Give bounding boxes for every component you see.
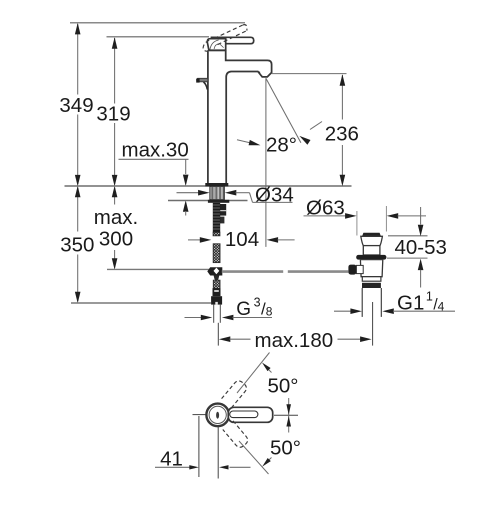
dimension 350 (vertical, deck to hose end): [60, 186, 94, 304]
reference line for 350 (hose end level): [71, 302, 211, 304]
label 50 deg lower with leader: [262, 437, 301, 467]
dimension 319 (vertical): [96, 37, 130, 186]
svg-text:40-53: 40-53: [395, 236, 447, 259]
dimension 236 (vertical at spout): [325, 74, 359, 186]
svg-text:236: 236: [325, 123, 359, 146]
drain plug cap: [362, 233, 381, 237]
top view: extension line axis below circle: [217, 427, 219, 479]
deck bottom line (max.30): [168, 200, 248, 202]
aerator detail arc: [260, 72, 264, 77]
dimension max.300 (vertical): [94, 186, 138, 270]
top view: extension line knob tip: [198, 416, 200, 477]
reference line: top of raised lever (349 level): [70, 22, 245, 24]
top view: horizontal centerline right of rod: [274, 414, 298, 416]
flexible hose (braided) upper segment: [213, 203, 220, 263]
svg-text:50°: 50°: [268, 375, 299, 398]
reference line for max.300 (linkage level): [107, 268, 210, 270]
faucet base flange: [205, 183, 228, 186]
svg-text:300: 300: [99, 228, 133, 251]
svg-text:Ø34: Ø34: [255, 183, 294, 206]
countertop / deck top line: [65, 185, 352, 187]
drain tailpipe: [361, 288, 363, 317]
connection pipe tails: [214, 305, 221, 323]
dimension O34 (shank diameter): [177, 183, 294, 206]
T-fitting / linkage junction on faucet axis: [207, 267, 222, 280]
dimension 41: [155, 448, 251, 471]
G3/8 connector nut: [211, 288, 222, 304]
extension line from spout tip (236 level): [272, 73, 347, 75]
top view: lever dashed at +50 deg (up): [222, 379, 249, 407]
svg-text:104: 104: [225, 228, 259, 251]
svg-text:max.30: max.30: [122, 139, 189, 162]
top view: angle dimension double arrow: [286, 398, 291, 433]
flexible hose lower segment: [213, 280, 220, 288]
drain: Ø63 extension lines: [357, 206, 387, 236]
drain pop-up waste assembly: [348, 233, 386, 346]
top view: lever dashed at -50 deg (down): [223, 421, 250, 449]
dimension G1 1/4 (drain thread): [334, 290, 455, 315]
drain seal washer: [356, 255, 386, 260]
drain flange: [361, 236, 383, 245]
dimension 40-53 (deck thickness at drain): [387, 207, 447, 288]
dimension G3/8 (hose thread): [185, 295, 273, 320]
dimension max.30 (deck thickness): [119, 139, 189, 216]
dimension O63 (drain flange): [304, 197, 427, 220]
svg-text:50°: 50°: [270, 437, 301, 460]
top view: faucet body circle: [206, 404, 229, 427]
dimension max.180 (horizontal): [219, 329, 372, 352]
svg-text:max.180: max.180: [255, 329, 334, 352]
washer under deck: [208, 200, 229, 203]
faucet: lever handle rod (side view): [212, 37, 254, 43]
threaded shank through deck: [210, 186, 224, 199]
top view: 50 deg ray up: [237, 353, 270, 394]
dimension 28 degrees with leader arrows: [237, 122, 322, 157]
drain axis extension line: [372, 302, 374, 346]
water stream vertical line: [265, 78, 267, 247]
dimension 349 (vertical, left): [59, 23, 93, 187]
faucet: lever base / cartridge head: [207, 39, 225, 51]
svg-text:max.: max.: [94, 206, 138, 229]
faucet: body column and spout: [208, 50, 272, 183]
drain body: [360, 260, 382, 277]
mounting nut on threaded rod: [220, 204, 227, 223]
svg-text:349: 349: [59, 94, 93, 117]
svg-text:28°: 28°: [266, 134, 297, 157]
faucet: raised lever (dashed): [203, 25, 247, 52]
pop-up waste knob on column: [196, 78, 208, 89]
drain lower flange: [362, 277, 381, 282]
top view: centerline left of body: [193, 414, 207, 416]
water stream angled line (28 deg): [266, 78, 301, 143]
reference line: top of lever at rest (319 level): [107, 36, 210, 38]
pop-up drain linkage rod (horizontal): [222, 270, 348, 273]
faucet axis extension line: [217, 323, 219, 346]
linkage ball joint knob: [348, 265, 356, 275]
label 50 deg upper with leader: [262, 363, 299, 398]
svg-text:350: 350: [60, 234, 94, 257]
top view: 50 deg ray down: [239, 441, 269, 474]
drain thread band: [362, 283, 381, 288]
svg-text:319: 319: [96, 103, 130, 126]
dimension 104 (horizontal): [188, 228, 295, 251]
drain neck: [363, 246, 380, 255]
top view: lever rod horizontal: [228, 407, 272, 422]
